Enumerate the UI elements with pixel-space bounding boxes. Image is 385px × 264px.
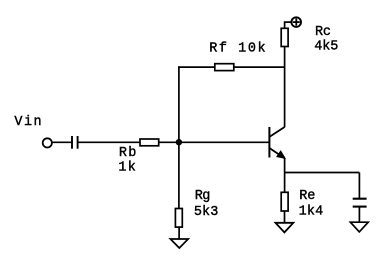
resistor Rc — [281, 28, 288, 46]
resistor Rf — [215, 64, 234, 71]
svg-text:Vin: Vin — [14, 115, 41, 130]
node Vin label — [14, 115, 41, 130]
input terminal — [43, 138, 52, 147]
svg-text:Re: Re — [299, 189, 315, 204]
resistor Rb — [140, 139, 159, 146]
wire Rf left segment — [178, 66, 215, 68]
label Rg — [195, 189, 211, 204]
wire Re to ground — [284, 211, 286, 223]
ground under Rg — [170, 239, 188, 248]
resistor Re — [281, 192, 288, 211]
label Rf 10k — [209, 41, 265, 56]
label Rb — [119, 146, 136, 161]
svg-text:Rc: Rc — [315, 25, 331, 40]
wire Rb to base — [159, 141, 270, 143]
wire junction down to Rg — [178, 142, 180, 208]
wire emitter to bypass branch — [285, 172, 360, 174]
label 1k — [118, 160, 135, 175]
svg-text:4k5: 4k5 — [314, 39, 338, 54]
wire capacitor to Rb — [78, 141, 140, 143]
power supply + terminal — [291, 17, 301, 27]
svg-text:1k: 1k — [118, 160, 135, 175]
wire Rc to power — [285, 22, 292, 28]
svg-text:1k4: 1k4 — [299, 205, 324, 220]
label Re — [299, 189, 315, 204]
wire down to bypass capacitor — [358, 173, 360, 199]
svg-text:Rg: Rg — [195, 189, 211, 204]
wire terminal to capacitor — [52, 141, 72, 143]
transistor Q1 emitter arrow — [277, 151, 285, 158]
ground under Re — [276, 223, 294, 233]
transistor Q1 collector stroke — [270, 127, 285, 137]
wire capacitor to ground — [358, 207, 360, 223]
label Rc — [315, 25, 331, 40]
label 1k4 — [299, 205, 324, 220]
capacitor C1 (input coupling) — [72, 136, 78, 149]
transistor Q1 emitter stroke — [270, 148, 285, 158]
svg-text:5k3: 5k3 — [194, 205, 218, 220]
wire Rf right segment — [234, 66, 285, 68]
capacitor C2 (emitter bypass) — [353, 199, 367, 207]
wire Rg to ground — [178, 227, 180, 239]
ground under bypass capacitor — [350, 222, 368, 232]
transistor Q1 base bar — [268, 127, 270, 158]
label 5k3 — [194, 205, 218, 220]
wire emitter down — [284, 158, 286, 192]
wire junction up to Rf rail — [178, 66, 180, 142]
junction node A — [176, 139, 182, 145]
label 4k5 — [314, 39, 338, 54]
resistor Rg — [175, 209, 182, 228]
svg-text:Rb: Rb — [119, 146, 136, 161]
wire collector rail — [284, 46, 286, 127]
